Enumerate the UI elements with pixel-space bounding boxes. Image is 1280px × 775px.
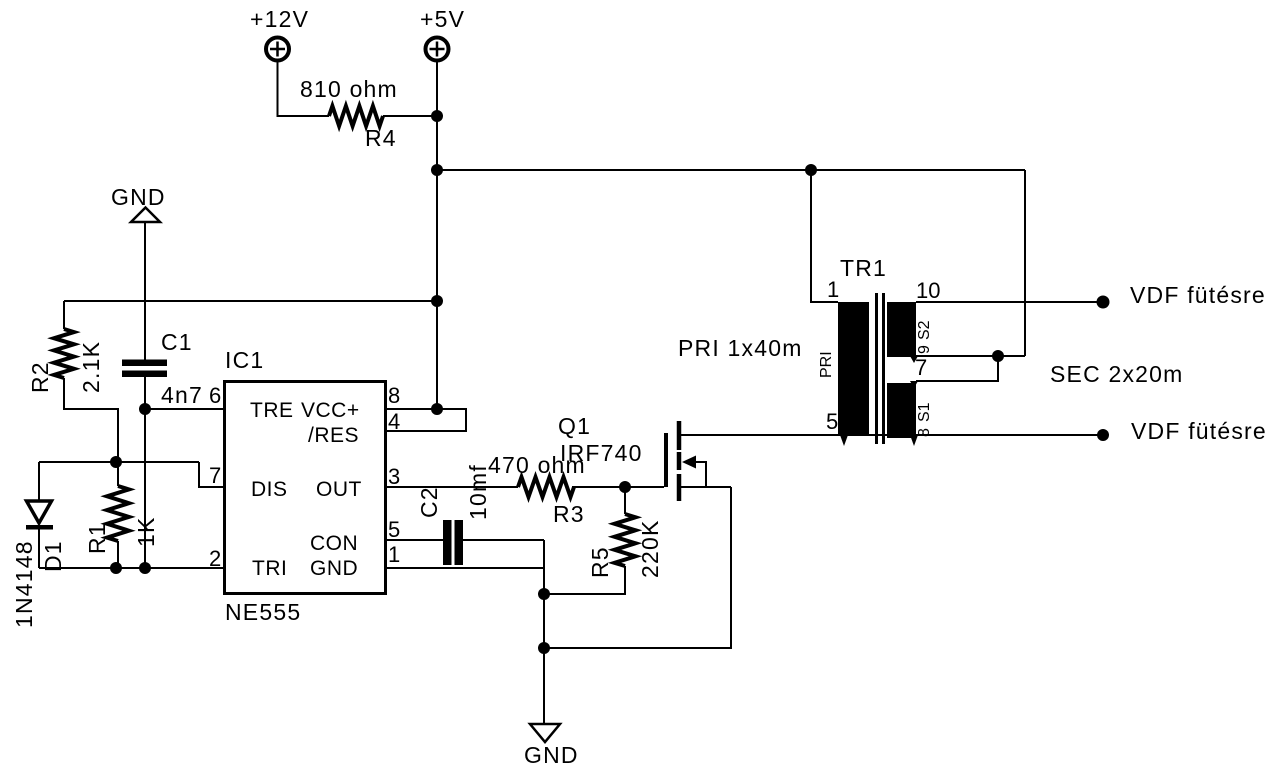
svg-text:3: 3 [388,464,400,489]
svg-text:IC1: IC1 [225,347,264,373]
svg-text:D1: D1 [40,540,66,572]
tick TR1 pin 9 [910,356,918,363]
junction source return / gnd line [538,642,550,654]
junction sec center tap node [992,350,1004,362]
wire R4 to +5V node [383,115,437,117]
transformer TR1 core [877,293,884,444]
svg-text:OUT: OUT [316,478,362,501]
capacitor C1 [122,360,167,378]
resistor R4 [329,106,383,126]
junction C1 / pin6 [139,403,151,415]
wire pin5 CON [385,539,443,541]
junction +5V rail / transformer top wire [431,164,443,176]
wire top rail to transformer [437,169,1025,171]
junction R1 top / DIS net [110,456,122,468]
svg-text:R3: R3 [553,501,585,527]
svg-text:+12V: +12V [250,6,309,32]
transformer TR1 primary winding [838,302,869,435]
wire pin1 GND [385,567,544,569]
svg-text:810 ohm: 810 ohm [300,76,398,102]
wire R3 to gate node [572,486,664,488]
wire DIS pin7 [199,462,225,487]
wire right rail down to sec junction [1024,170,1026,356]
svg-text:R1: R1 [84,522,110,554]
wire TRI pin2 [39,567,225,569]
svg-text:VDF fütésre: VDF fütésre [1130,282,1266,308]
wire pin7 center tap [916,356,998,381]
junction R5 return / gnd line [538,588,550,600]
svg-text:TR1: TR1 [840,255,887,281]
wire left gnd bus [64,300,437,302]
resistor R2 [54,329,74,378]
wire DIS net horizontal [39,461,199,463]
junction R4/+5V rail [431,110,443,122]
wire pin6 TRE [145,408,225,410]
wire GND to C1 [144,222,146,360]
wire bus to R2 [63,301,65,329]
svg-text:8: 8 [916,428,933,437]
transistor Q1 IRF740 [666,421,1103,501]
svg-text:220K: 220K [637,519,663,578]
tick TR1 pin 7 [910,381,918,388]
junction +5V rail / pin8 [431,403,443,415]
svg-text:5: 5 [388,517,400,542]
tick TR1 pin 8 [910,435,918,446]
svg-text:2: 2 [209,546,221,571]
svg-text:GND: GND [310,557,358,580]
wire C1 to pin6 node [144,377,146,409]
junction R1 bottom / TRI net [110,562,122,574]
wire gnd vertical [543,540,545,724]
svg-text:6: 6 [209,383,221,408]
svg-text:DIS: DIS [251,478,288,501]
svg-text:7: 7 [209,463,221,488]
svg-text:470 ohm: 470 ohm [488,452,586,478]
wire TR1 pin1 [811,170,838,302]
ground GND top [131,208,160,223]
IC U1 NE555 box [225,382,386,594]
svg-text:10: 10 [916,278,940,303]
svg-text:R5: R5 [587,546,613,578]
svg-text:GND: GND [111,184,166,210]
wire pin9 [916,355,1025,357]
svg-text:S2: S2 [916,320,933,340]
svg-text:1: 1 [827,277,839,302]
wire R2 bottom to R1 top node [64,378,118,462]
svg-text:PRI: PRI [818,351,835,378]
wire +5V vertical rail [436,61,438,409]
svg-text:VDF fütésre: VDF fütésre [1131,418,1267,444]
wire C2 right [463,539,544,541]
svg-text:R4: R4 [365,125,397,151]
transformer TR1 secondary winding S1 [887,383,916,438]
junction C1 gnd line / TRI net [139,562,151,574]
terminal dot VDF top [1097,296,1110,309]
junction R3/R5/gate node [619,481,631,493]
svg-text:8: 8 [388,383,400,408]
power symbol +12V [266,38,289,61]
svg-text:7: 7 [915,355,927,380]
svg-text:SEC 2x20m: SEC 2x20m [1050,361,1184,387]
tick TR1 pin 5 [840,435,848,446]
svg-text:1K: 1K [133,516,159,547]
resistor R3 [518,477,574,497]
svg-text:9: 9 [916,345,933,354]
capacitor C2 [443,520,463,565]
svg-text:4n7: 4n7 [161,382,203,408]
svg-text:PRI 1x40m: PRI 1x40m [678,335,803,361]
svg-text:2.1K: 2.1K [78,341,104,393]
svg-text:1: 1 [388,542,400,567]
svg-text:VCC+: VCC+ [301,399,360,422]
svg-text:TRE: TRE [250,399,294,422]
svg-text:C2: C2 [416,486,442,518]
svg-text:/RES: /RES [308,424,359,447]
svg-text:NE555: NE555 [225,599,301,625]
svg-text:R2: R2 [27,361,53,393]
svg-text:5: 5 [826,409,838,434]
wire +12V to R4 [278,61,330,116]
svg-text:+5V: +5V [420,6,465,32]
wire pin10 secondary out [916,301,1103,303]
resistor R1 [107,462,129,568]
ground GND bottom [530,724,560,742]
junction +5V rail / left gnd bus [431,295,443,307]
junction TR1 pin1 branch [805,164,817,176]
transformer TR1 secondary winding S2 [887,302,916,357]
svg-text:1N4148: 1N4148 [11,540,37,628]
svg-text:GND: GND [524,742,579,768]
wire source return bottom [544,487,731,648]
svg-text:4: 4 [388,409,400,434]
wire pin3 OUT [385,486,518,488]
svg-text:S1: S1 [916,402,933,422]
svg-text:C1: C1 [161,329,193,355]
diode D1 [26,462,53,568]
wire pin8 pin4 loop [385,409,466,431]
svg-text:CON: CON [310,532,358,555]
svg-text:Q1: Q1 [558,413,591,439]
resistor R5 [544,487,636,594]
svg-text:10mf: 10mf [465,464,491,520]
svg-text:TRI: TRI [252,557,287,580]
terminal dot VDF bottom [1097,429,1109,441]
power symbol +5V [426,38,449,61]
wire C1 gnd line down [144,409,146,568]
